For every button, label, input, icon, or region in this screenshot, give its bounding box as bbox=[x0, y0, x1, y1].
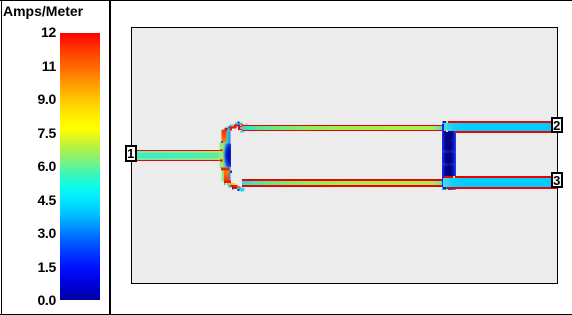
wire output line port3 top edge bbox=[444, 176, 557, 178]
wire bottom window border bbox=[0, 314, 572, 315]
wire output line port2 top edge bbox=[447, 121, 557, 123]
wire legend separator bbox=[109, 0, 111, 315]
node junction vertical strip bbox=[222, 129, 231, 182]
wire halo input top bbox=[137, 148, 220, 149]
wire halo input bottom bbox=[137, 161, 220, 162]
node bar yellow dot above branch end bbox=[446, 130, 448, 131]
wire lower arc red bar2 bbox=[224, 180, 231, 183]
node isolation resistor bar bbox=[442, 121, 455, 191]
wire halo lower branch top bbox=[244, 178, 442, 179]
wire left window border bbox=[1, 0, 2, 315]
node junction low-current wedge bbox=[223, 144, 232, 168]
node bar corner dark dot bottom bbox=[443, 187, 446, 189]
wire output line port2 interior bbox=[444, 123, 557, 131]
wire halo lower branch bottom bbox=[244, 187, 442, 188]
node label 4.5 bbox=[4, 193, 56, 207]
node substrate box bbox=[131, 27, 558, 284]
wire lower branch bottom edge bbox=[242, 185, 442, 187]
wire halo upper branch bottom bbox=[244, 131, 442, 132]
wire halo output3 bottom bbox=[456, 189, 557, 190]
node bar corner yellow dot bottom bbox=[446, 189, 448, 190]
wire input feed line upper inner row bbox=[133, 151, 220, 153]
wire lower arc yellow tread bbox=[227, 183, 233, 185]
wire input red edge stubs into junction bbox=[220, 150, 223, 152]
wire halo output3 top bbox=[456, 175, 557, 176]
wire upper branch interior bbox=[242, 126, 442, 130]
wire lower arc tread B bbox=[234, 187, 241, 189]
wire input feed line lower inner row bbox=[133, 158, 220, 160]
node label 12 bbox=[4, 25, 56, 39]
wire input feed line port1 top edge bbox=[133, 150, 220, 152]
wire lower branch interior bbox=[242, 181, 442, 185]
wire output line port3 bottom edge bbox=[447, 187, 557, 189]
node bar corner dark dot top bbox=[443, 121, 445, 123]
wire lower branch top edge bbox=[242, 179, 442, 181]
wire upper arc tread A bbox=[234, 124, 245, 126]
node bar yellow dot right bottom bbox=[453, 176, 455, 178]
node port 3 bbox=[551, 172, 564, 188]
node label 6.0 bbox=[4, 159, 56, 173]
wire upper arc tread B bbox=[229, 126, 237, 128]
node resistor bar mid light band 1 bbox=[442, 150, 455, 153]
node legend title Amps/Meter bbox=[3, 3, 83, 19]
wire input feed line bottom edge bbox=[133, 160, 220, 162]
wire lower riser red top bbox=[221, 168, 223, 170]
wire output line port2 bottom edge bbox=[454, 131, 558, 133]
node bar corner yellow dot top bbox=[446, 121, 448, 123]
wire lower riser orange block bbox=[224, 171, 229, 181]
node label 9.0 bbox=[4, 92, 56, 106]
node label 0.0 bbox=[4, 293, 56, 307]
node port 1 bbox=[125, 145, 138, 162]
node label 3.0 bbox=[4, 226, 56, 240]
wire lower arc tread A bbox=[230, 185, 237, 187]
wire upper branch bottom edge bbox=[242, 130, 442, 132]
wire upper branch top edge bbox=[242, 125, 442, 127]
node port 2 bbox=[551, 117, 564, 134]
wire output line port3 interior bbox=[443, 178, 557, 187]
wire top window border bbox=[0, 0, 572, 1]
node upper branch terminus dots bbox=[238, 125, 240, 127]
node label 11 bbox=[4, 59, 56, 73]
node resistor bar bottom cap bbox=[442, 187, 455, 190]
wire halo upper branch top bbox=[244, 123, 442, 124]
node resistor bar mid light band 2 bbox=[442, 163, 455, 167]
wire upper riser bbox=[222, 130, 227, 142]
wire upper arc tread C bbox=[225, 128, 233, 130]
node label 1.5 bbox=[4, 260, 56, 274]
node label 7.5 bbox=[4, 126, 56, 140]
wire upper arc high red bbox=[245, 123, 247, 125]
wire input feed line core bbox=[133, 153, 220, 158]
wire halo output2 bottom bbox=[456, 133, 557, 134]
node colorbar scale bbox=[60, 33, 100, 300]
node T-junction region with arcs bbox=[218, 116, 250, 195]
wire halo output2 top bbox=[456, 120, 557, 121]
node resistor bar top cap bbox=[442, 121, 455, 124]
